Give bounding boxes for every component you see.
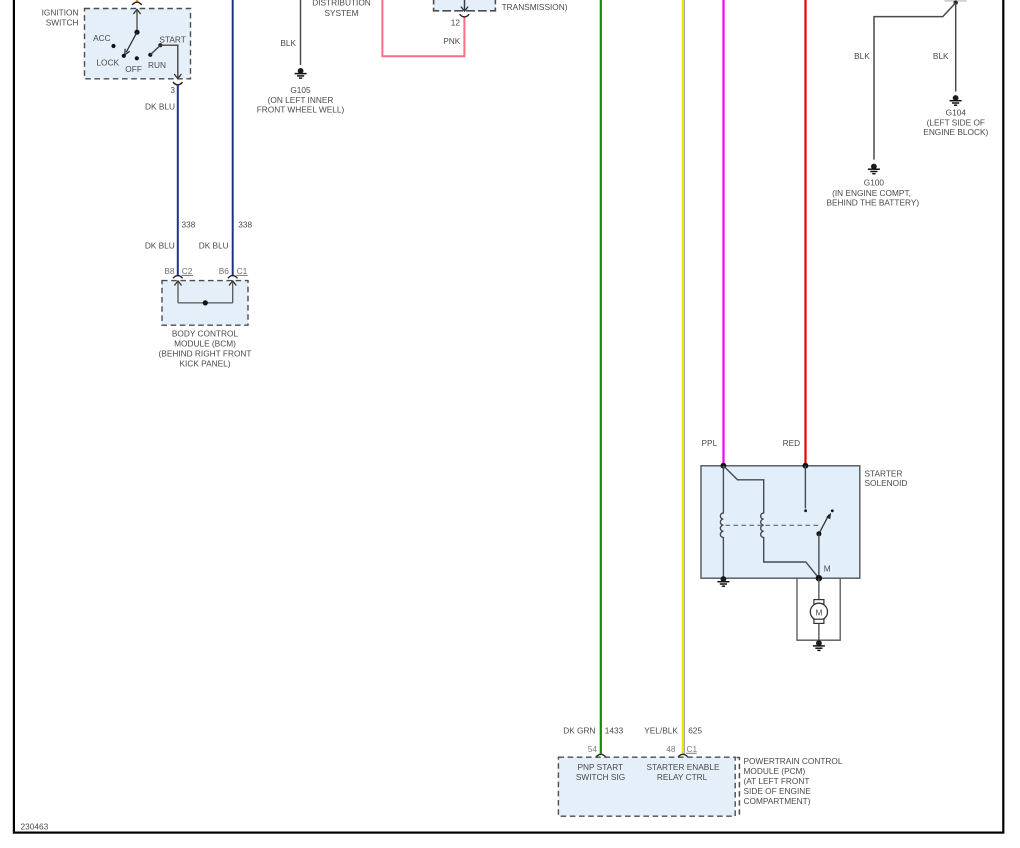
svg-text:G105: G105 [290, 85, 311, 95]
svg-text:RED: RED [783, 438, 801, 448]
svg-text:54: 54 [588, 744, 598, 754]
svg-text:SWITCH: SWITCH [46, 17, 79, 27]
svg-text:DK BLU: DK BLU [145, 101, 175, 111]
svg-text:RELAY CTRL: RELAY CTRL [657, 772, 708, 782]
svg-text:G100: G100 [864, 178, 885, 188]
svg-text:PNK: PNK [443, 36, 461, 46]
svg-text:1433: 1433 [605, 725, 624, 735]
svg-text:(IN ENGINE COMPT,: (IN ENGINE COMPT, [832, 188, 911, 198]
svg-text:STARTER ENABLE: STARTER ENABLE [646, 762, 719, 772]
svg-text:START: START [159, 34, 185, 44]
svg-text:ACC: ACC [93, 33, 111, 43]
svg-text:KICK PANEL): KICK PANEL) [179, 358, 230, 368]
svg-text:BODY CONTROL: BODY CONTROL [172, 328, 239, 338]
svg-text:OFF: OFF [125, 64, 142, 74]
svg-text:MODULE (PCM): MODULE (PCM) [744, 766, 806, 776]
svg-text:DK BLU: DK BLU [145, 240, 175, 250]
svg-text:SYSTEM: SYSTEM [324, 8, 358, 18]
svg-text:POWERTRAIN CONTROL: POWERTRAIN CONTROL [744, 756, 843, 766]
svg-text:SOLENOID: SOLENOID [865, 478, 908, 488]
svg-text:G104: G104 [946, 108, 967, 118]
svg-text:C2: C2 [182, 266, 193, 276]
svg-text:338: 338 [238, 220, 252, 230]
svg-text:BLK: BLK [933, 51, 949, 61]
svg-text:(LEFT SIDE OF: (LEFT SIDE OF [927, 117, 985, 127]
svg-text:(AT LEFT FRONT: (AT LEFT FRONT [744, 776, 810, 786]
svg-text:(ON LEFT INNER: (ON LEFT INNER [268, 95, 334, 105]
svg-text:C1: C1 [237, 266, 248, 276]
svg-text:SWITCH SIG: SWITCH SIG [576, 772, 625, 782]
svg-text:YEL/BLK: YEL/BLK [644, 725, 678, 735]
svg-text:DK BLU: DK BLU [199, 240, 229, 250]
svg-text:TRANSMISSION): TRANSMISSION) [502, 2, 568, 12]
svg-text:C1: C1 [687, 744, 698, 754]
svg-text:PPL: PPL [702, 438, 718, 448]
svg-text:COMPARTMENT): COMPARTMENT) [744, 796, 811, 806]
svg-text:B8: B8 [164, 266, 175, 276]
svg-text:BEHIND THE BATTERY): BEHIND THE BATTERY) [826, 198, 919, 208]
svg-text:48: 48 [666, 744, 676, 754]
svg-text:3: 3 [170, 85, 175, 95]
svg-text:338: 338 [182, 220, 196, 230]
svg-text:MODULE (BCM): MODULE (BCM) [174, 338, 236, 348]
svg-text:STARTER: STARTER [865, 468, 903, 478]
svg-text:ENGINE BLOCK): ENGINE BLOCK) [923, 127, 988, 137]
svg-text:12: 12 [451, 17, 461, 27]
svg-text:DISTRIBUTION: DISTRIBUTION [312, 0, 371, 8]
svg-text:B6: B6 [219, 266, 230, 276]
svg-text:FRONT WHEEL WELL): FRONT WHEEL WELL) [257, 104, 345, 114]
svg-text:M: M [824, 564, 831, 574]
svg-text:RUN: RUN [148, 60, 166, 70]
svg-text:BLK: BLK [854, 51, 870, 61]
svg-text:LOCK: LOCK [96, 57, 119, 67]
svg-text:PNP START: PNP START [577, 762, 623, 772]
svg-text:625: 625 [688, 725, 702, 735]
svg-text:IGNITION: IGNITION [42, 7, 79, 17]
svg-text:BLK: BLK [280, 38, 296, 48]
svg-text:(BEHIND RIGHT FRONT: (BEHIND RIGHT FRONT [159, 348, 252, 358]
svg-text:M: M [815, 608, 822, 618]
svg-text:230463: 230463 [21, 822, 49, 832]
svg-text:SIDE OF ENGINE: SIDE OF ENGINE [744, 786, 812, 796]
svg-text:DK GRN: DK GRN [563, 725, 595, 735]
